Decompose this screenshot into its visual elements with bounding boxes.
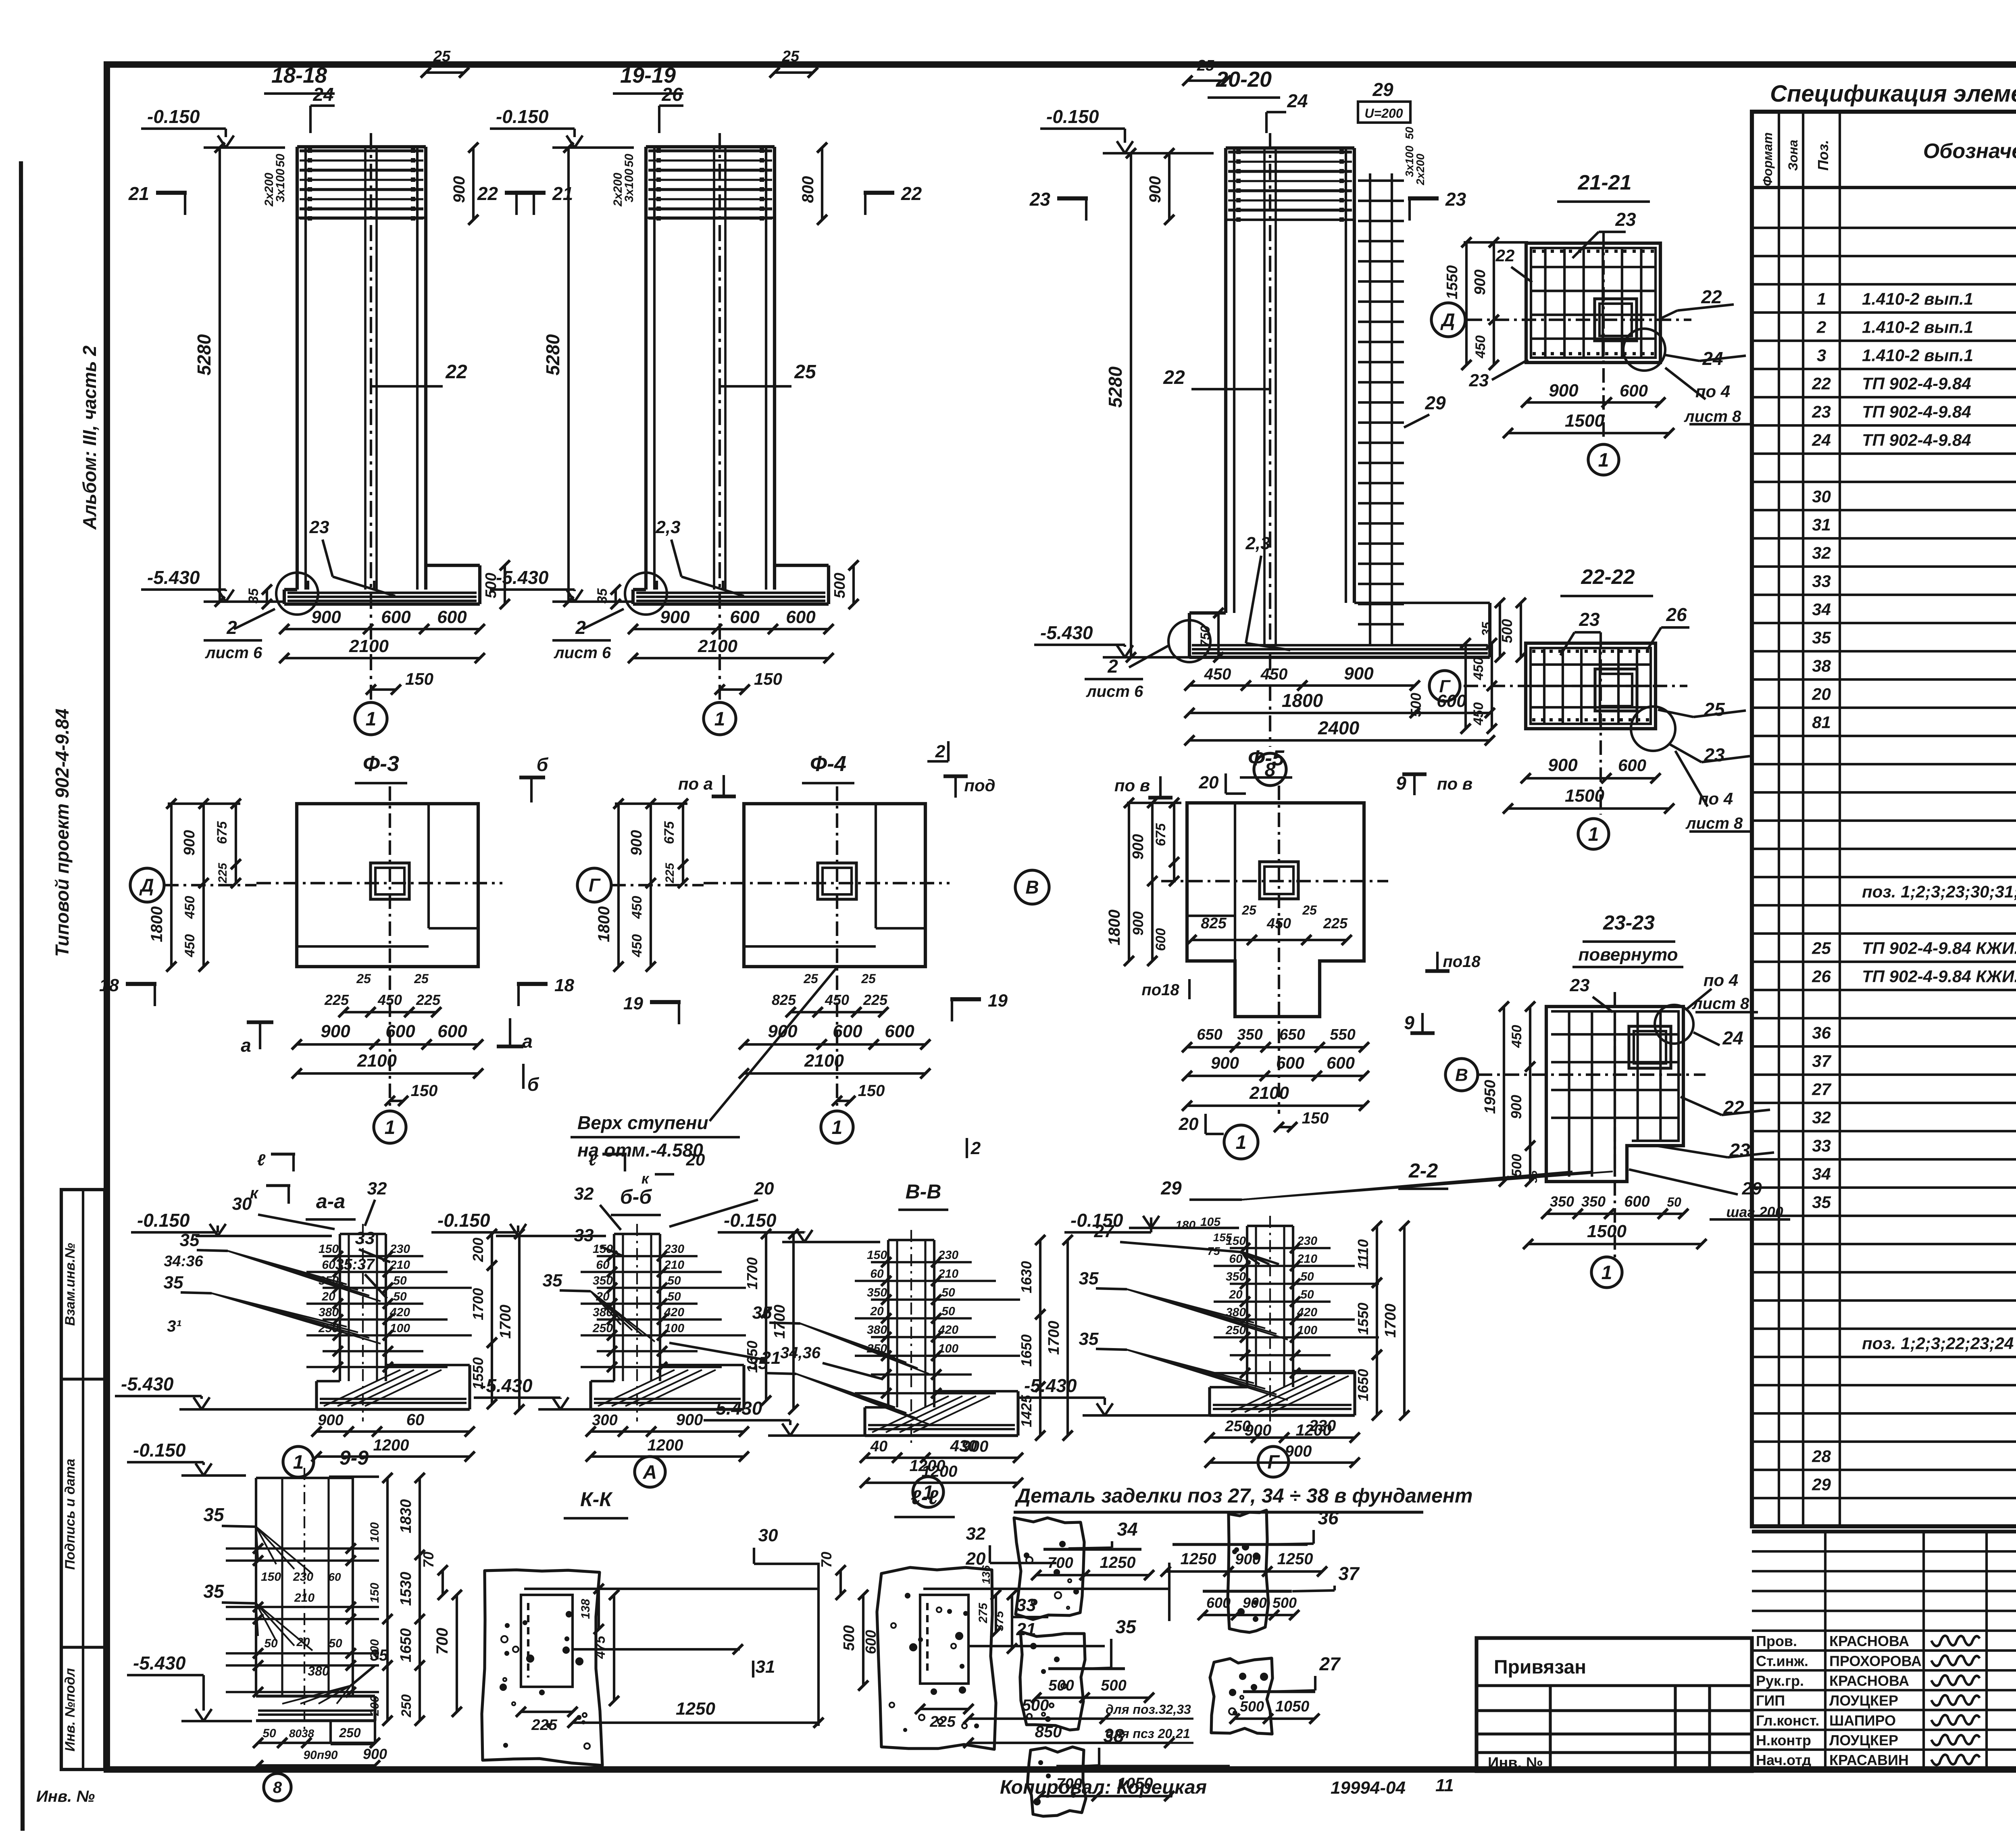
svg-text:Ф-3: Ф-3: [363, 752, 399, 776]
svg-text:23: 23: [1615, 209, 1636, 230]
svg-text:1500: 1500: [1565, 411, 1604, 431]
svg-text:36: 36: [1812, 1023, 1831, 1042]
svg-text:30: 30: [1812, 487, 1831, 506]
margin stamp boxes: [61, 1190, 105, 1769]
svg-text:900: 900: [311, 607, 341, 627]
svg-text:-0.150: -0.150: [147, 106, 200, 127]
svg-text:675: 675: [1153, 823, 1168, 846]
svg-text:а: а: [522, 1031, 533, 1052]
zadelka patch 34: [1014, 1518, 1084, 1619]
svg-text:1500: 1500: [1587, 1221, 1627, 1241]
svg-text:150: 150: [368, 1583, 381, 1603]
svg-text:225: 225: [416, 992, 441, 1008]
svg-text:лист 8: лист 8: [1684, 408, 1741, 425]
svg-text:600: 600: [1276, 1053, 1304, 1072]
svg-text:60: 60: [870, 1267, 884, 1280]
svg-text:23-23: 23-23: [1603, 911, 1655, 934]
svg-text:32: 32: [1812, 543, 1831, 562]
spec table rows: [1752, 186, 2016, 189]
svg-text:50: 50: [264, 1637, 278, 1650]
svg-text:Инв. №: Инв. №: [36, 1788, 95, 1805]
svg-text:700: 700: [1048, 1555, 1073, 1571]
svg-text:375: 375: [993, 1611, 1006, 1631]
svg-text:Подпись и дата: Подпись и дата: [62, 1459, 78, 1570]
svg-text:450: 450: [1471, 702, 1486, 726]
svg-text:50: 50: [393, 1274, 407, 1288]
svg-text:1: 1: [1817, 289, 1826, 308]
svg-text:50: 50: [623, 154, 636, 167]
svg-text:34: 34: [1812, 1164, 1831, 1183]
svg-text:Поз.: Поз.: [1815, 140, 1831, 171]
svg-text:2,3: 2,3: [655, 517, 680, 537]
svg-text:28: 28: [1812, 1446, 1831, 1465]
svg-text:1700: 1700: [497, 1305, 514, 1339]
svg-text:повернуто: повернуто: [1578, 945, 1678, 965]
svg-text:2: 2: [971, 1138, 981, 1158]
svg-text:35: 35: [543, 1271, 562, 1290]
svg-text:шаг 200: шаг 200: [1726, 1204, 1783, 1220]
svg-text:210: 210: [294, 1591, 314, 1605]
svg-text:1: 1: [714, 709, 725, 730]
svg-text:Формат: Формат: [1760, 132, 1775, 186]
svg-text:-0.150: -0.150: [1046, 106, 1099, 127]
svg-text:35: 35: [1812, 628, 1831, 647]
svg-text:100: 100: [664, 1321, 684, 1335]
svg-text:210: 210: [938, 1267, 958, 1280]
svg-text:1250: 1250: [1100, 1554, 1136, 1571]
svg-text:34,36: 34,36: [780, 1344, 821, 1362]
title block: [1752, 1530, 2016, 1533]
zadelka patch 27: [1210, 1658, 1272, 1734]
svg-text:34: 34: [1812, 600, 1831, 619]
svg-text:500: 500: [1272, 1594, 1297, 1611]
svg-text:35: 35: [1079, 1269, 1099, 1288]
svg-text:-0.150: -0.150: [133, 1440, 186, 1461]
svg-text:1800: 1800: [1106, 910, 1123, 946]
svg-text:155: 155: [1213, 1231, 1232, 1244]
svg-text:19: 19: [623, 994, 643, 1013]
svg-text:1: 1: [366, 709, 377, 730]
svg-text:-5.430: -5.430: [133, 1653, 186, 1674]
svg-text:50: 50: [329, 1637, 342, 1650]
svg-text:37: 37: [1812, 1051, 1831, 1070]
svg-text:25: 25: [414, 971, 429, 986]
svg-text:600: 600: [381, 607, 411, 627]
zadelka patch 35: [1020, 1632, 1085, 1730]
svg-text:23: 23: [1579, 609, 1600, 630]
svg-text:2х200: 2х200: [611, 173, 625, 207]
svg-text:900: 900: [181, 830, 198, 855]
zadelka patch 36-37: [1228, 1510, 1268, 1632]
svg-text:-5.430: -5.430: [1040, 622, 1093, 643]
svg-text:2,3: 2,3: [1245, 534, 1270, 553]
svg-text:24: 24: [1812, 430, 1831, 449]
svg-text:900: 900: [363, 1746, 387, 1762]
svg-text:35: 35: [203, 1581, 225, 1602]
svg-text:ЛОУЦКЕР: ЛОУЦКЕР: [1829, 1692, 1898, 1709]
svg-text:21-21: 21-21: [1578, 171, 1632, 194]
svg-text:3: 3: [1817, 346, 1826, 365]
svg-text:по18: по18: [1141, 981, 1179, 999]
svg-text:5280: 5280: [542, 334, 563, 375]
svg-text:230: 230: [389, 1242, 410, 1256]
svg-text:-0.150: -0.150: [724, 1210, 777, 1231]
svg-text:200: 200: [368, 1696, 381, 1716]
svg-text:25: 25: [782, 48, 800, 65]
svg-text:22-22: 22-22: [1581, 565, 1635, 589]
svg-text:1: 1: [1602, 1262, 1612, 1284]
svg-text:1250: 1250: [1277, 1550, 1313, 1568]
svg-text:60: 60: [1229, 1252, 1243, 1265]
svg-text:2: 2: [226, 617, 237, 638]
svg-text:25: 25: [1704, 699, 1725, 720]
svg-text:25: 25: [1241, 903, 1257, 917]
svg-text:2: 2: [1816, 317, 1826, 336]
svg-text:900: 900: [1508, 1095, 1524, 1119]
svg-text:700: 700: [433, 1628, 451, 1655]
svg-text:900: 900: [1344, 664, 1374, 684]
svg-text:КРАСНОВА: КРАСНОВА: [1829, 1673, 1909, 1689]
svg-text:225: 225: [324, 992, 349, 1008]
svg-text:138: 138: [579, 1599, 592, 1619]
svg-text:50: 50: [941, 1305, 955, 1318]
svg-text:Н.контр: Н.контр: [1756, 1732, 1811, 1749]
svg-text:600: 600: [385, 1021, 415, 1041]
svg-text:Деталь заделки поз 27, 34 ÷ 38: Деталь заделки поз 27, 34 ÷ 38 в фундаме…: [1014, 1484, 1473, 1507]
svg-text:к: к: [641, 1170, 650, 1187]
svg-text:В-В: В-В: [906, 1180, 941, 1203]
svg-text:900: 900: [962, 1438, 989, 1455]
svg-text:8: 8: [273, 1779, 282, 1796]
svg-text:230: 230: [664, 1242, 684, 1256]
svg-text:25: 25: [433, 48, 451, 65]
svg-text:27: 27: [1094, 1221, 1115, 1241]
svg-text:225: 225: [1323, 915, 1348, 932]
svg-text:1800: 1800: [595, 907, 613, 942]
svg-text:250: 250: [339, 1726, 361, 1740]
svg-text:33: 33: [574, 1225, 594, 1245]
svg-text:20: 20: [296, 1636, 310, 1649]
svg-text:230: 230: [938, 1248, 958, 1262]
svg-text:450: 450: [629, 896, 645, 919]
svg-text:1200: 1200: [910, 1457, 946, 1475]
svg-text:900: 900: [450, 176, 468, 203]
svg-text:35:37: 35:37: [335, 1256, 375, 1273]
svg-text:по в: по в: [1437, 774, 1472, 793]
svg-text:Инв. №: Инв. №: [1488, 1755, 1543, 1771]
svg-text:90п90: 90п90: [303, 1749, 337, 1762]
svg-text:1050: 1050: [1275, 1698, 1310, 1715]
svg-text:1: 1: [293, 1452, 304, 1473]
svg-text:420: 420: [664, 1306, 684, 1319]
svg-text:230: 230: [1297, 1234, 1317, 1248]
svg-text:30: 30: [232, 1194, 252, 1214]
svg-text:9: 9: [1404, 1012, 1414, 1033]
svg-text:Гл.конст.: Гл.конст.: [1756, 1712, 1819, 1729]
svg-text:150: 150: [405, 669, 433, 688]
svg-text:29: 29: [1425, 392, 1446, 413]
svg-text:500: 500: [1240, 1698, 1264, 1715]
svg-text:50: 50: [1667, 1195, 1681, 1209]
svg-text:150: 150: [867, 1248, 887, 1262]
svg-text:1: 1: [832, 1117, 843, 1138]
svg-text:2100: 2100: [349, 636, 389, 656]
svg-text:500: 500: [1101, 1677, 1126, 1694]
svg-text:450: 450: [182, 934, 198, 958]
svg-text:70: 70: [818, 1552, 835, 1568]
svg-text:825: 825: [772, 992, 796, 1008]
svg-text:450: 450: [1204, 665, 1231, 683]
svg-text:350: 350: [1226, 1270, 1246, 1284]
svg-text:-5.430: -5.430: [147, 567, 200, 588]
svg-text:60: 60: [322, 1258, 335, 1271]
svg-text:350: 350: [1581, 1193, 1606, 1210]
svg-text:ШАПИРО: ШАПИРО: [1829, 1712, 1896, 1729]
svg-text:1250: 1250: [1181, 1550, 1216, 1568]
svg-text:1.410-2 вып.1: 1.410-2 вып.1: [1862, 346, 1973, 365]
svg-text:25: 25: [803, 971, 818, 986]
svg-text:50: 50: [941, 1286, 955, 1299]
svg-text:50: 50: [667, 1274, 681, 1288]
svg-text:-5.430: -5.430: [480, 1375, 533, 1396]
svg-text:1700: 1700: [1382, 1304, 1399, 1338]
svg-text:26: 26: [1666, 604, 1687, 625]
svg-text:275: 275: [977, 1603, 990, 1624]
svg-text:по 4: по 4: [1704, 971, 1738, 990]
svg-text:2: 2: [1107, 656, 1118, 677]
svg-text:2100: 2100: [1249, 1083, 1289, 1103]
svg-text:лист 6: лист 6: [554, 644, 611, 662]
svg-text:20: 20: [870, 1305, 884, 1318]
svg-text:100: 100: [1297, 1323, 1317, 1337]
svg-text:1: 1: [385, 1117, 396, 1138]
svg-text:20: 20: [1812, 684, 1831, 703]
svg-text:210: 210: [1297, 1252, 1317, 1265]
svg-text:23: 23: [1445, 189, 1466, 210]
svg-text:26: 26: [661, 84, 683, 105]
svg-text:100: 100: [390, 1321, 410, 1335]
svg-text:450: 450: [1471, 657, 1486, 681]
svg-text:1550: 1550: [1355, 1303, 1371, 1335]
svg-text:ТП 902-4-9.84 КЖИ.С5: ТП 902-4-9.84 КЖИ.С5: [1862, 967, 2016, 986]
svg-text:37: 37: [1338, 1563, 1360, 1584]
svg-text:36: 36: [1318, 1507, 1339, 1528]
svg-text:33: 33: [1812, 571, 1831, 590]
svg-text:2100: 2100: [804, 1051, 844, 1071]
svg-text:600: 600: [833, 1021, 862, 1041]
svg-text:Спецификация элементов монол: Спецификация элементов монолитных фундам…: [1770, 81, 2016, 107]
svg-text:по а: по а: [678, 774, 713, 793]
svg-text:81: 81: [1812, 713, 1831, 732]
svg-text:1.410-2 вып.1: 1.410-2 вып.1: [1862, 289, 1973, 308]
svg-text:900: 900: [1245, 1421, 1272, 1439]
svg-text:225: 225: [216, 863, 229, 884]
svg-text:350: 350: [1237, 1026, 1262, 1043]
svg-text:230: 230: [293, 1570, 313, 1584]
svg-text:лист 8: лист 8: [1692, 995, 1749, 1013]
svg-text:1110: 1110: [1355, 1239, 1371, 1269]
svg-text:900: 900: [1130, 834, 1147, 859]
svg-text:50: 50: [1300, 1288, 1314, 1301]
svg-text:35: 35: [1812, 1192, 1831, 1211]
svg-text:К-К: К-К: [580, 1488, 613, 1511]
svg-text:к: к: [250, 1184, 259, 1202]
svg-text:22: 22: [1495, 246, 1515, 265]
svg-text:450: 450: [1260, 665, 1288, 683]
svg-text:ТП 902-4-9.84: ТП 902-4-9.84: [1862, 430, 1971, 449]
svg-text:22: 22: [1163, 367, 1185, 388]
svg-text:600: 600: [437, 607, 467, 627]
svg-text:35: 35: [1079, 1329, 1099, 1349]
svg-text:210: 210: [664, 1258, 684, 1271]
svg-text:18: 18: [554, 975, 574, 995]
svg-text:500: 500: [841, 1625, 858, 1651]
svg-text:380: 380: [867, 1323, 887, 1337]
svg-text:23: 23: [1469, 371, 1489, 390]
svg-text:1630: 1630: [1018, 1261, 1035, 1293]
svg-text:ЛОУЦКЕР: ЛОУЦКЕР: [1829, 1732, 1898, 1749]
svg-text:20: 20: [754, 1179, 774, 1198]
svg-text:Пров.: Пров.: [1756, 1633, 1797, 1649]
svg-text:300: 300: [592, 1412, 617, 1429]
svg-text:900: 900: [1548, 755, 1578, 775]
svg-text:32: 32: [574, 1184, 594, 1204]
svg-text:38: 38: [1103, 1725, 1124, 1746]
svg-text:380: 380: [319, 1306, 339, 1319]
svg-text:33: 33: [1812, 1136, 1831, 1155]
svg-text:200: 200: [368, 1639, 381, 1660]
svg-text:450: 450: [1509, 1025, 1524, 1048]
svg-text:1700: 1700: [744, 1257, 760, 1290]
svg-text:105: 105: [1200, 1215, 1221, 1229]
svg-text:U=200: U=200: [1364, 106, 1403, 121]
svg-text:25: 25: [356, 971, 371, 986]
zadelka patch 38: [1027, 1747, 1086, 1816]
svg-text:20: 20: [1229, 1288, 1243, 1301]
svg-text:35: 35: [748, 1353, 768, 1373]
svg-text:50: 50: [274, 154, 287, 167]
svg-text:1550: 1550: [1444, 265, 1461, 300]
svg-text:Альбом: III, часть 2: Альбом: III, часть 2: [79, 345, 100, 530]
svg-text:Г: Г: [1267, 1452, 1280, 1473]
svg-text:35: 35: [595, 588, 610, 604]
svg-text:25: 25: [861, 971, 876, 986]
svg-text:5280: 5280: [194, 334, 215, 375]
svg-text:27: 27: [1319, 1653, 1341, 1674]
svg-text:20: 20: [966, 1549, 986, 1569]
svg-text:150: 150: [261, 1570, 281, 1584]
svg-text:поз. 1;2;3;22;23;24 см. Ф-3: поз. 1;2;3;22;23;24 см. Ф-3: [1862, 1334, 2016, 1353]
svg-text:900: 900: [1549, 381, 1579, 400]
svg-text:-0.150: -0.150: [137, 1210, 190, 1231]
svg-text:22: 22: [1701, 286, 1722, 307]
svg-text:100: 100: [368, 1522, 381, 1542]
svg-text:33: 33: [355, 1228, 375, 1248]
svg-text:11: 11: [1435, 1776, 1454, 1795]
svg-text:550: 550: [1330, 1026, 1355, 1043]
svg-text:180: 180: [1175, 1219, 1195, 1232]
svg-text:1: 1: [1598, 450, 1609, 471]
spec table grid: [1752, 112, 2016, 1526]
svg-text:Привязан: Привязан: [1494, 1657, 1586, 1678]
svg-text:31: 31: [756, 1657, 775, 1677]
svg-text:Взам.инв.№: Взам.инв.№: [62, 1243, 78, 1326]
svg-text:900: 900: [676, 1411, 703, 1429]
svg-text:1200: 1200: [648, 1436, 683, 1454]
svg-text:35: 35: [1527, 1170, 1539, 1183]
svg-text:22: 22: [477, 183, 498, 204]
svg-text:2100: 2100: [357, 1051, 397, 1071]
svg-text:600: 600: [885, 1021, 914, 1041]
svg-text:450: 450: [629, 934, 645, 958]
svg-text:20: 20: [686, 1150, 705, 1169]
svg-text:-5.430: -5.430: [1024, 1375, 1077, 1396]
svg-text:50: 50: [393, 1290, 407, 1303]
svg-text:23: 23: [309, 517, 329, 537]
svg-text:900: 900: [628, 830, 645, 855]
svg-text:50: 50: [1300, 1270, 1314, 1284]
svg-text:250: 250: [592, 1321, 613, 1335]
svg-text:-5.430: -5.430: [496, 567, 549, 588]
svg-text:Инв. №подл: Инв. №подл: [62, 1668, 78, 1751]
svg-text:б: б: [527, 1074, 539, 1095]
svg-text:лист 8: лист 8: [1685, 815, 1743, 832]
svg-text:420: 420: [389, 1306, 410, 1319]
svg-text:35: 35: [1479, 621, 1494, 636]
svg-text:по 4: по 4: [1695, 382, 1730, 401]
svg-text:2х200: 2х200: [262, 173, 276, 207]
svg-text:26: 26: [1812, 967, 1831, 986]
svg-text:420: 420: [1297, 1306, 1317, 1319]
svg-text:600: 600: [786, 607, 816, 627]
svg-text:75: 75: [1207, 1245, 1220, 1257]
svg-text:Нач.отд: Нач.отд: [1756, 1752, 1811, 1768]
svg-text:900: 900: [1211, 1053, 1239, 1072]
svg-text:40: 40: [870, 1438, 887, 1455]
svg-text:200: 200: [470, 1238, 486, 1262]
svg-text:ПРОХОРОВА: ПРОХОРОВА: [1829, 1653, 1922, 1669]
svg-text:900: 900: [1243, 1594, 1267, 1611]
svg-text:1830: 1830: [398, 1499, 414, 1534]
svg-text:9-9: 9-9: [339, 1446, 369, 1469]
svg-text:Ст.инж.: Ст.инж.: [1756, 1653, 1808, 1669]
svg-text:250: 250: [399, 1694, 414, 1718]
svg-text:900: 900: [1146, 176, 1164, 203]
svg-text:1500: 1500: [1565, 786, 1604, 806]
svg-text:В: В: [1025, 877, 1039, 898]
svg-text:60: 60: [596, 1258, 610, 1271]
svg-text:225: 225: [531, 1717, 557, 1734]
svg-text:38: 38: [1812, 656, 1831, 675]
svg-text:675: 675: [662, 821, 677, 844]
svg-text:2х200: 2х200: [1414, 154, 1427, 185]
svg-text:-5.430: -5.430: [121, 1373, 174, 1394]
svg-text:24: 24: [1287, 90, 1308, 111]
svg-text:900: 900: [660, 607, 690, 627]
svg-text:1700: 1700: [1045, 1321, 1062, 1355]
svg-text:30: 30: [758, 1526, 778, 1545]
svg-text:21: 21: [128, 183, 149, 204]
svg-text:5280: 5280: [1105, 366, 1126, 408]
svg-text:350: 350: [1550, 1193, 1574, 1210]
svg-text:Д: Д: [1440, 309, 1455, 330]
svg-text:500: 500: [1509, 1154, 1524, 1177]
svg-text:22: 22: [445, 361, 467, 383]
svg-text:475: 475: [593, 1636, 608, 1659]
svg-text:Типовой проект 902-4-9.84: Типовой проект 902-4-9.84: [52, 709, 73, 957]
svg-text:675: 675: [215, 821, 230, 844]
svg-text:б-б: б-б: [620, 1186, 653, 1208]
